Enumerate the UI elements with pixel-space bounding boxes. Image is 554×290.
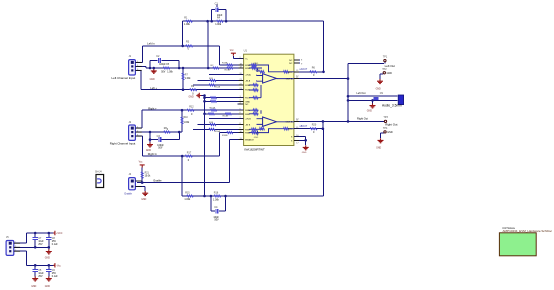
svg-text:Right Out: Right Out: [357, 116, 368, 120]
svg-text:GND: GND: [376, 148, 381, 150]
svg-text:R13B: R13B: [225, 70, 231, 72]
svg-text:OUT A: OUT A: [286, 78, 293, 81]
svg-text:1.00k: 1.00k: [215, 23, 222, 26]
svg-text:GND: GND: [150, 79, 155, 81]
svg-text:C4: C4: [214, 205, 218, 209]
svg-text:NC: NC: [289, 63, 293, 65]
svg-text:U1: U1: [244, 49, 248, 53]
svg-text:GND: GND: [45, 286, 50, 288]
svg-text:+IN B: +IN B: [245, 119, 251, 121]
svg-text:uBOUT: uBOUT: [300, 126, 308, 128]
svg-text:R13A: R13A: [222, 61, 228, 64]
svg-text:-IN A: -IN A: [245, 80, 250, 83]
svg-text:AMP10434_EVM_Hardware.SchDoc: AMP10434_EVM_Hardware.SchDoc: [503, 229, 553, 233]
svg-text:Audio_3.5mm: Audio_3.5mm: [382, 104, 402, 108]
svg-text:+VCC: +VCC: [56, 233, 63, 235]
svg-text:R21: R21: [145, 172, 150, 174]
svg-text:R4A: R4A: [245, 109, 250, 112]
svg-text:GND: GND: [254, 63, 259, 65]
svg-text:SH-J4: SH-J4: [95, 171, 102, 174]
svg-text:uAOUT: uAOUT: [300, 68, 308, 71]
svg-text:NC: NC: [289, 60, 293, 62]
svg-text:R1A: R1A: [245, 84, 250, 87]
svg-text:10uF: 10uF: [38, 241, 44, 243]
svg-text:R4B: R4B: [245, 114, 250, 116]
svg-text:1.00k: 1.00k: [185, 78, 191, 80]
svg-text:GND: GND: [302, 152, 307, 154]
svg-text:Right +: Right +: [148, 107, 157, 111]
svg-text:GND: GND: [376, 88, 381, 90]
svg-text:R14B: R14B: [223, 115, 229, 117]
svg-text:GND: GND: [387, 72, 393, 75]
svg-text:100pF: 100pF: [157, 145, 164, 147]
svg-text:R14A: R14A: [210, 107, 216, 110]
svg-text:R1B: R1B: [245, 90, 250, 92]
svg-text:1.00k: 1.00k: [184, 198, 191, 201]
svg-text:GND: GND: [245, 101, 250, 103]
svg-text:GND: GND: [367, 110, 372, 112]
svg-text:R3B: R3B: [245, 129, 250, 131]
svg-text:Enable: Enable: [125, 192, 133, 195]
svg-text:25V: 25V: [52, 241, 57, 243]
svg-text:TP2: TP2: [382, 68, 387, 71]
svg-text:GND: GND: [189, 97, 194, 99]
svg-text:Left In: Left In: [147, 41, 155, 45]
svg-text:+IN A: +IN A: [245, 74, 251, 77]
svg-text:R3C: R3C: [288, 129, 293, 131]
svg-text:TP1: TP1: [383, 56, 388, 59]
svg-text:GND: GND: [146, 150, 151, 152]
svg-text:R1C: R1C: [245, 98, 250, 100]
svg-text:Left Out: Left Out: [357, 92, 366, 95]
svg-text:GND: GND: [387, 131, 393, 134]
svg-text:GND: GND: [254, 137, 259, 139]
svg-text:1.00k: 1.00k: [184, 122, 190, 124]
svg-text:R12A: R12A: [215, 86, 221, 89]
svg-text:R15: R15: [185, 192, 190, 195]
svg-text:R3A: R3A: [245, 132, 250, 135]
svg-text:R16: R16: [214, 192, 219, 195]
svg-text:R16A: R16A: [215, 130, 221, 133]
svg-text:GND: GND: [141, 199, 146, 201]
svg-text:50V: 50V: [161, 71, 166, 73]
svg-text:R2B: R2B: [245, 68, 250, 70]
svg-text:GND: GND: [45, 258, 50, 260]
svg-text:INA1620IRTWT: INA1620IRTWT: [244, 147, 265, 151]
svg-text:-IN B: -IN B: [245, 125, 251, 127]
svg-text:R17: R17: [187, 151, 192, 154]
svg-text:C1: C1: [215, 2, 219, 6]
svg-text:Left +: Left +: [150, 86, 157, 90]
svg-text:Right In: Right In: [148, 152, 157, 156]
svg-text:ENABLE: ENABLE: [245, 139, 254, 142]
svg-text:TP3: TP3: [383, 116, 388, 119]
svg-text:0.1uF: 0.1uF: [52, 276, 58, 278]
svg-text:50V: 50V: [214, 219, 219, 222]
svg-text:TP4: TP4: [383, 127, 388, 130]
svg-text:Enable: Enable: [154, 179, 163, 183]
svg-text:R12: R12: [189, 106, 194, 109]
svg-text:1.00k: 1.00k: [184, 23, 191, 26]
svg-text:25V: 25V: [38, 276, 43, 278]
svg-text:1.00k: 1.00k: [213, 198, 220, 201]
svg-text:25V: 25V: [52, 273, 57, 275]
svg-text:NC: NC: [245, 104, 249, 106]
svg-text:R2A: R2A: [245, 64, 250, 67]
svg-text:Right Channel Input: Right Channel Input: [110, 141, 136, 145]
svg-text:10.0k: 10.0k: [145, 176, 151, 178]
svg-text:OUT B: OUT B: [286, 121, 293, 123]
svg-text:25V: 25V: [38, 244, 43, 246]
svg-text:0.1uF: 0.1uF: [52, 244, 58, 246]
svg-text:R2C: R2C: [288, 72, 293, 74]
svg-text:R20: R20: [312, 124, 317, 127]
svg-text:10uF: 10uF: [38, 273, 44, 275]
svg-text:50V: 50V: [158, 148, 163, 150]
svg-text:R10: R10: [184, 117, 189, 119]
svg-text:R16B: R16B: [222, 135, 228, 137]
svg-text:Left Channel Input: Left Channel Input: [112, 76, 136, 80]
svg-text:1.00k: 1.00k: [167, 72, 173, 74]
svg-text:GND: GND: [31, 286, 36, 288]
